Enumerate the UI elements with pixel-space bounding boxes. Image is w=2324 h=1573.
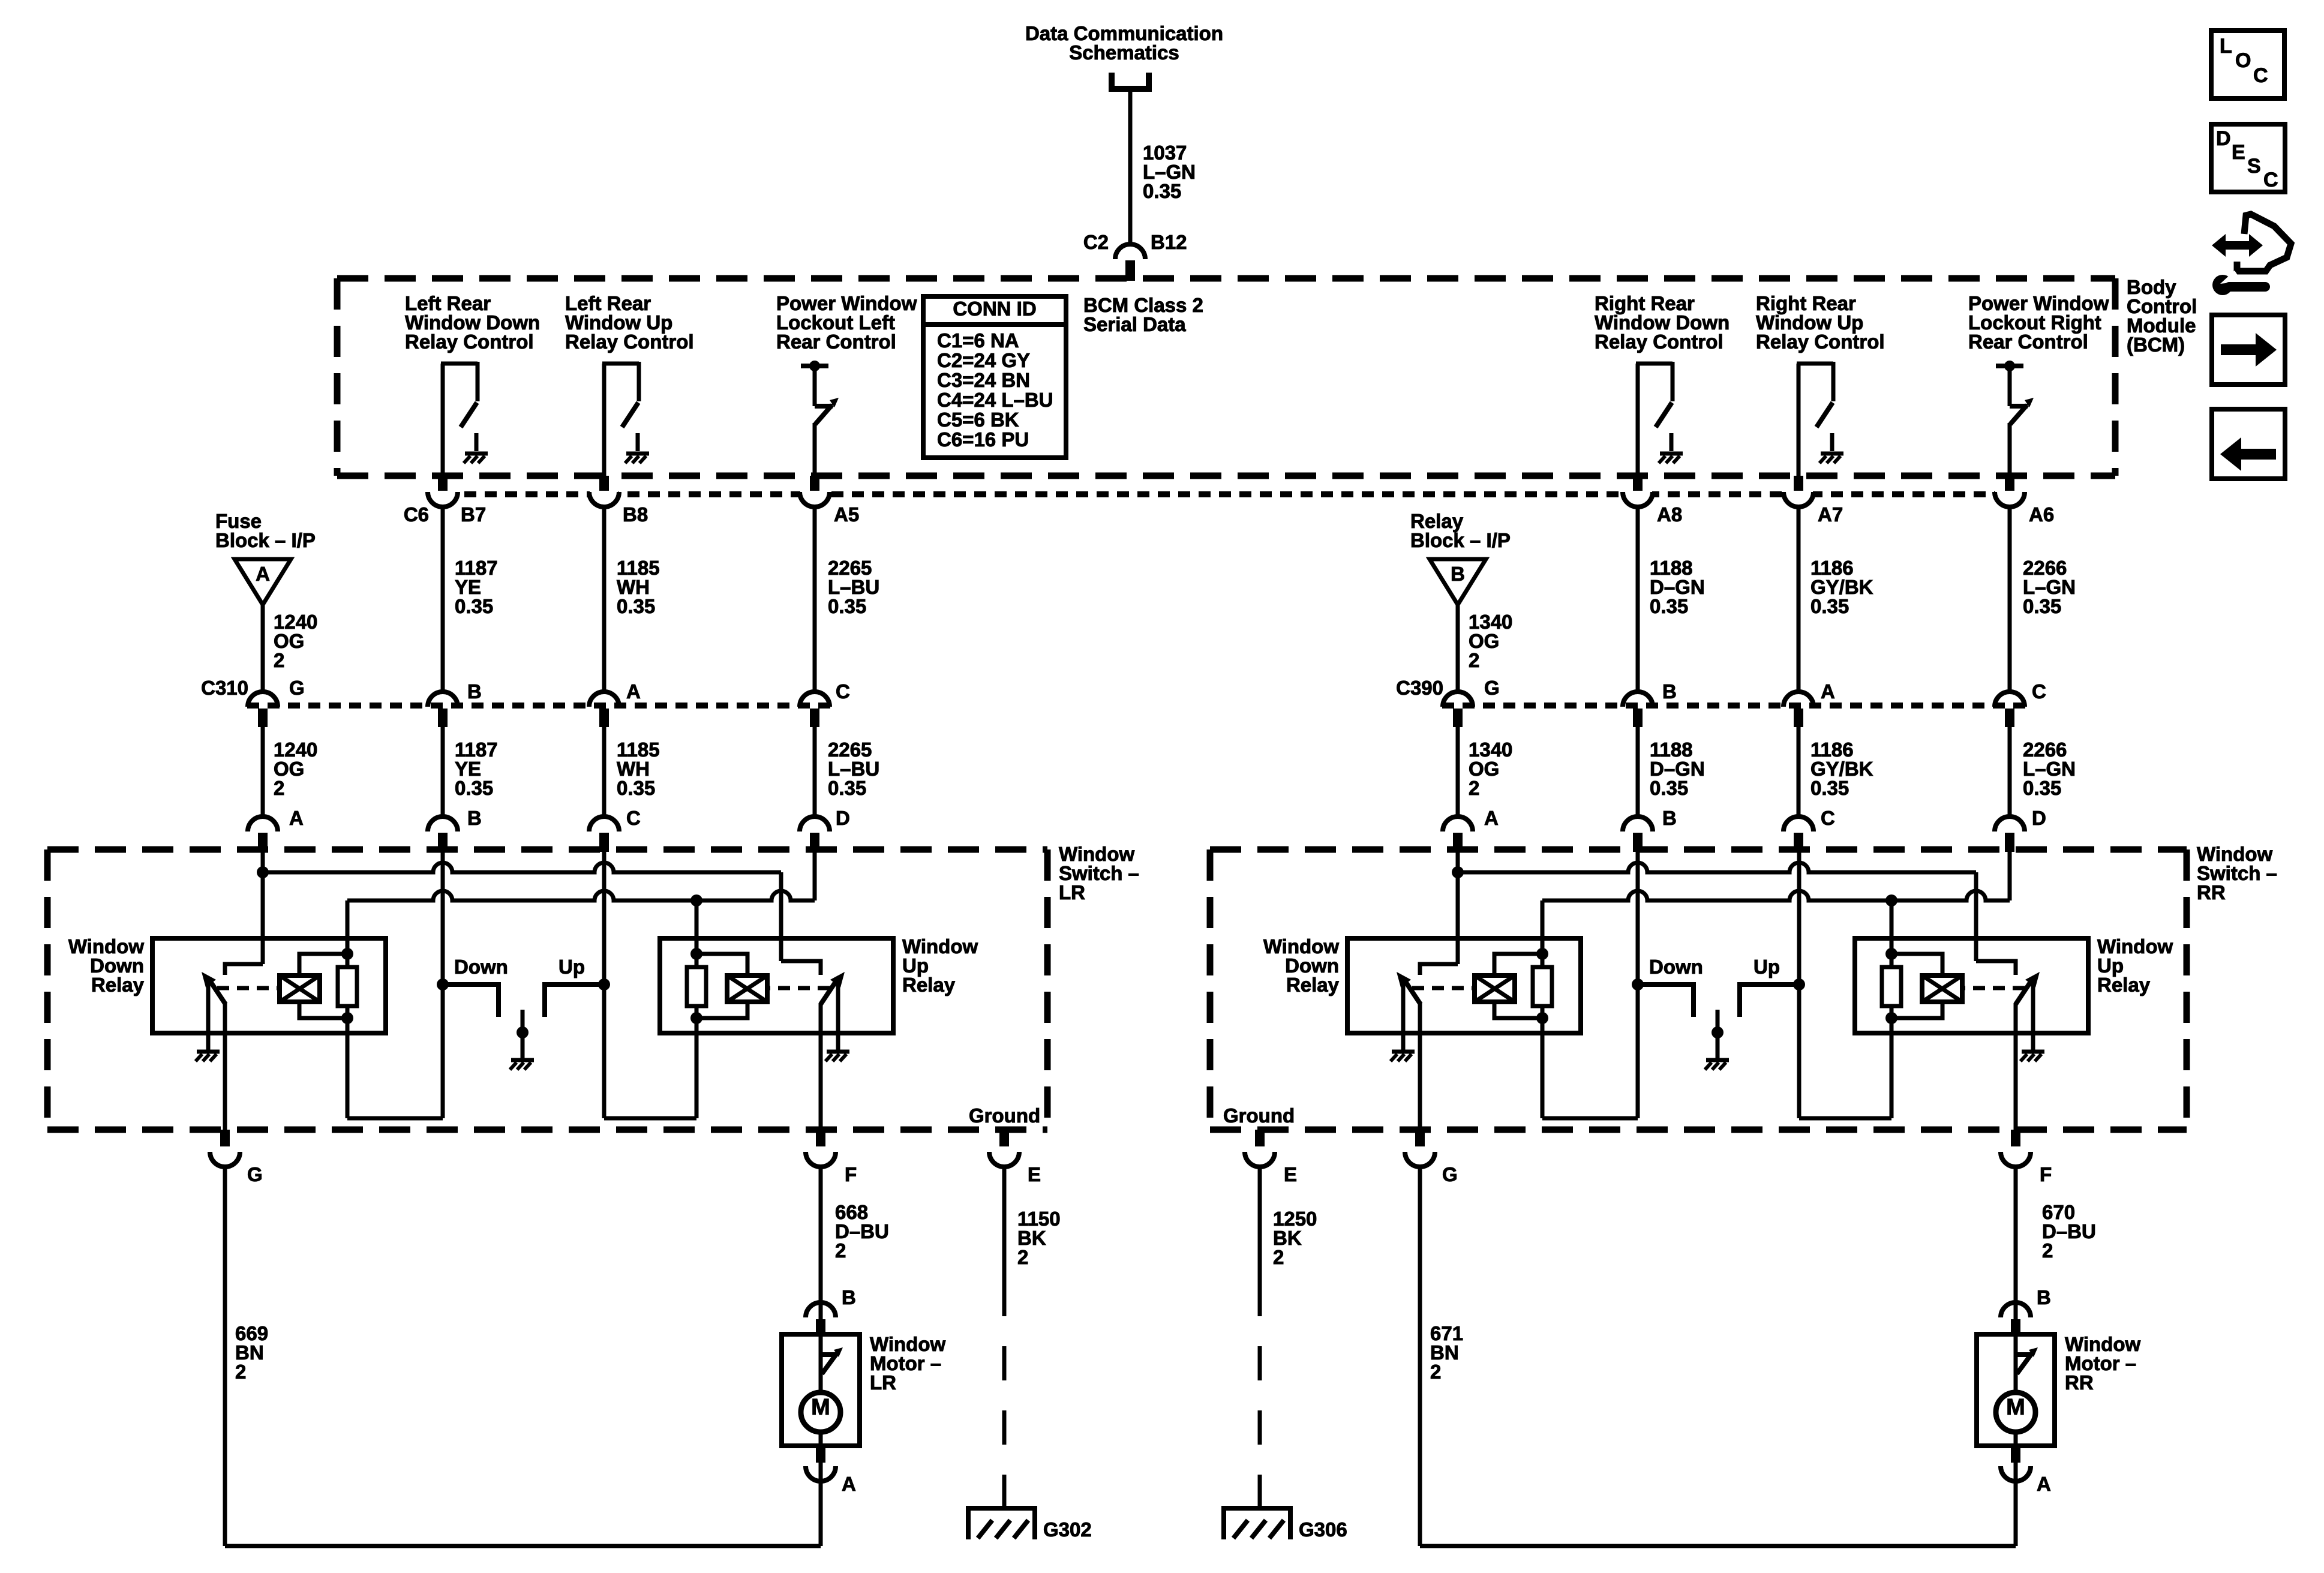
svg-text:A6: A6 (2029, 503, 2054, 526)
svg-text:Block – I/P: Block – I/P (215, 529, 316, 551)
svg-text:Relay: Relay (1286, 974, 1340, 996)
svg-text:E: E (1028, 1163, 1041, 1185)
svg-text:G306: G306 (1299, 1518, 1347, 1541)
svg-text:A: A (1821, 680, 1835, 703)
svg-text:G: G (1442, 1163, 1458, 1185)
svg-text:0.35: 0.35 (1650, 595, 1688, 617)
svg-text:Rear Control: Rear Control (1968, 331, 2088, 353)
svg-text:0.35: 0.35 (1650, 777, 1688, 799)
svg-text:C1=6 NA: C1=6 NA (937, 329, 1019, 352)
svg-text:A: A (842, 1473, 856, 1495)
svg-text:D: D (2032, 807, 2046, 829)
svg-text:F: F (2040, 1163, 2052, 1185)
svg-text:B12: B12 (1151, 231, 1187, 253)
svg-text:Down: Down (1649, 956, 1703, 978)
svg-text:B: B (1662, 807, 1677, 829)
svg-text:0.35: 0.35 (455, 595, 493, 617)
svg-text:B: B (467, 680, 482, 703)
svg-text:B7: B7 (461, 503, 486, 526)
svg-text:0.35: 0.35 (828, 595, 866, 617)
svg-text:Up: Up (559, 956, 585, 978)
svg-text:A: A (2037, 1473, 2051, 1495)
svg-text:2: 2 (2042, 1239, 2053, 1262)
svg-text:0.35: 0.35 (1810, 777, 1849, 799)
svg-text:C: C (2253, 64, 2268, 87)
svg-text:C: C (836, 680, 850, 703)
svg-text:Ground: Ground (1223, 1104, 1295, 1127)
svg-text:B8: B8 (623, 503, 648, 526)
svg-text:C: C (2263, 169, 2278, 191)
svg-text:A7: A7 (1818, 503, 1843, 526)
svg-text:G: G (247, 1163, 263, 1185)
svg-text:0.35: 0.35 (2023, 777, 2061, 799)
svg-text:(BCM): (BCM) (2127, 334, 2185, 356)
svg-text:2: 2 (235, 1361, 246, 1383)
svg-text:A: A (1484, 807, 1499, 829)
svg-text:Up: Up (1753, 956, 1780, 978)
svg-text:Rear Control: Rear Control (776, 331, 896, 353)
svg-text:0.35: 0.35 (617, 777, 655, 799)
svg-text:LR: LR (870, 1371, 896, 1394)
svg-text:Relay Control: Relay Control (565, 331, 694, 353)
svg-text:A: A (289, 807, 304, 829)
svg-text:A5: A5 (834, 503, 859, 526)
svg-text:G302: G302 (1043, 1518, 1092, 1541)
svg-text:C4=24 L–BU: C4=24 L–BU (937, 389, 1053, 411)
svg-text:A8: A8 (1657, 503, 1682, 526)
svg-text:Schematics: Schematics (1069, 41, 1179, 64)
svg-text:Block – I/P: Block – I/P (1410, 529, 1511, 551)
svg-text:Down: Down (454, 956, 508, 978)
svg-text:RR: RR (2197, 881, 2226, 903)
svg-text:C390: C390 (1396, 677, 1443, 699)
svg-text:O: O (2235, 49, 2251, 72)
svg-text:G: G (1484, 677, 1500, 699)
svg-text:E: E (2232, 141, 2245, 164)
svg-text:A: A (256, 563, 270, 585)
svg-text:Relay: Relay (2097, 974, 2151, 996)
svg-text:Ground: Ground (969, 1104, 1040, 1127)
svg-text:Relay Control: Relay Control (1756, 331, 1885, 353)
svg-text:B: B (1451, 563, 1465, 585)
svg-text:C6=16 PU: C6=16 PU (937, 428, 1029, 451)
svg-text:2: 2 (835, 1239, 846, 1262)
svg-text:Relay: Relay (91, 974, 145, 996)
svg-text:Relay: Relay (902, 974, 956, 996)
svg-text:RR: RR (2065, 1371, 2094, 1394)
svg-text:D: D (2216, 127, 2231, 150)
svg-text:C310: C310 (201, 677, 248, 699)
svg-text:A: A (626, 680, 641, 703)
svg-text:E: E (1284, 1163, 1297, 1185)
svg-text:C: C (1821, 807, 1835, 829)
svg-text:S: S (2247, 155, 2261, 178)
svg-text:G: G (289, 677, 305, 699)
svg-text:2: 2 (274, 649, 284, 671)
svg-text:B: B (2037, 1286, 2051, 1308)
svg-text:2: 2 (1430, 1361, 1441, 1383)
svg-text:0.35: 0.35 (828, 777, 866, 799)
svg-text:2: 2 (1273, 1246, 1284, 1268)
svg-text:C5=6 BK: C5=6 BK (937, 409, 1019, 431)
svg-text:B: B (467, 807, 482, 829)
svg-text:C2: C2 (1083, 231, 1109, 253)
svg-text:M: M (2006, 1395, 2025, 1420)
svg-text:Relay Control: Relay Control (1595, 331, 1724, 353)
svg-text:C: C (626, 807, 641, 829)
svg-text:CONN ID: CONN ID (953, 298, 1036, 320)
svg-text:Serial Data: Serial Data (1083, 313, 1186, 335)
svg-text:B: B (1662, 680, 1677, 703)
svg-text:B: B (842, 1286, 856, 1308)
svg-text:0.35: 0.35 (1810, 595, 1849, 617)
svg-text:0.35: 0.35 (617, 595, 655, 617)
svg-text:2: 2 (1017, 1246, 1028, 1268)
svg-text:Relay Control: Relay Control (405, 331, 534, 353)
svg-text:M: M (811, 1395, 830, 1420)
svg-text:0.35: 0.35 (2023, 595, 2061, 617)
svg-text:C: C (2032, 680, 2046, 703)
svg-text:C3=24 BN: C3=24 BN (937, 369, 1030, 391)
svg-text:0.35: 0.35 (455, 777, 493, 799)
svg-text:2: 2 (274, 777, 284, 799)
svg-text:C2=24 GY: C2=24 GY (937, 349, 1030, 371)
svg-text:C6: C6 (404, 503, 429, 526)
svg-text:2: 2 (1469, 649, 1479, 671)
svg-text:D: D (836, 807, 850, 829)
svg-text:2: 2 (1469, 777, 1479, 799)
svg-text:LR: LR (1059, 881, 1085, 903)
svg-text:0.35: 0.35 (1143, 180, 1181, 202)
svg-text:F: F (845, 1163, 857, 1185)
svg-text:L: L (2220, 35, 2232, 58)
